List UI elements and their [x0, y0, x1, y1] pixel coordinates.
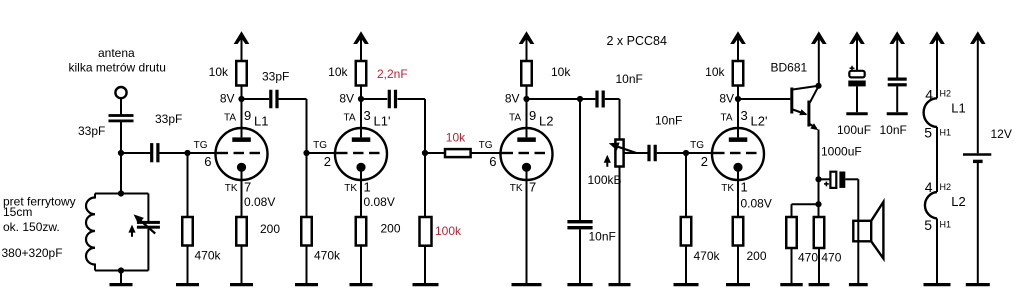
node 8V stage 3	[526, 86, 528, 100]
resistor R8 10k series to grid	[425, 152, 445, 154]
wire battery to ground	[977, 161, 979, 283]
svg-text:TG: TG	[479, 140, 493, 151]
triode L2' grid (dashed)	[711, 152, 725, 154]
wire R8 to grid of L2	[471, 152, 501, 154]
capacitor C9 100uF supply	[849, 31, 865, 44]
svg-text:2,2nF: 2,2nF	[377, 67, 408, 81]
resistor R5 200 cathode	[360, 167, 362, 217]
svg-text:H1: H1	[940, 220, 952, 230]
transistor Q1 base bar	[790, 88, 793, 114]
svg-text:6: 6	[489, 154, 496, 169]
svg-text:8V: 8V	[220, 92, 235, 106]
resistor R10 470k grid leak	[685, 153, 687, 217]
svg-text:TK: TK	[510, 183, 523, 194]
wire R7 to ground	[424, 246, 426, 284]
transistor Q2 emitter	[810, 124, 817, 129]
resistor R3 10k anode load	[236, 61, 247, 86]
svg-text:0.08V: 0.08V	[364, 195, 395, 209]
svg-text:1: 1	[364, 180, 371, 195]
triode L1' grid (dashed)	[334, 152, 348, 154]
ground pot	[609, 283, 631, 286]
capacitor C10 10nF supply	[889, 31, 905, 44]
svg-text:10k: 10k	[209, 65, 229, 79]
svg-text:100kB: 100kB	[588, 173, 622, 187]
svg-text:3: 3	[741, 108, 748, 123]
svg-text:L2: L2	[951, 194, 965, 209]
node E junction	[577, 96, 583, 102]
svg-text:2 x PCC84: 2 x PCC84	[607, 34, 667, 48]
wire antenna to C1	[120, 98, 122, 114]
wire C1 to node A	[120, 122, 122, 153]
potentiometer wiper arrow	[613, 145, 637, 153]
potentiometer adjust arrow	[606, 160, 608, 167]
svg-text:7: 7	[244, 180, 251, 195]
wire R1 to ground	[187, 246, 189, 284]
transistor Q2 collector	[810, 86, 819, 102]
svg-text:L1: L1	[951, 101, 965, 116]
resistor R9 10k anode load	[521, 61, 532, 86]
svg-text:BD681: BD681	[771, 61, 808, 75]
triode L2 anode plate	[517, 137, 536, 142]
wire C6 to ground	[579, 229, 581, 283]
svg-text:200: 200	[747, 249, 767, 263]
triode L1' anode plate	[352, 137, 371, 142]
svg-text:10k: 10k	[328, 65, 348, 79]
svg-text:0.08V: 0.08V	[244, 195, 275, 209]
node 8V stage 4	[737, 86, 739, 100]
wire R2 to ground	[241, 246, 243, 284]
resistor R13 470	[786, 217, 797, 248]
svg-text:TK: TK	[225, 183, 238, 194]
speaker LS1	[853, 221, 871, 242]
wire C7 to node F	[657, 152, 713, 154]
wire R11 to ground	[737, 246, 739, 284]
wire R10 to ground	[685, 246, 687, 284]
svg-text:TG: TG	[690, 140, 704, 151]
svg-text:470k: 470k	[195, 249, 222, 263]
svg-text:470k: 470k	[314, 249, 341, 263]
supply arrow heaters	[929, 31, 945, 44]
resistor R1 470k grid leak	[187, 153, 189, 217]
svg-text:8V: 8V	[505, 92, 520, 106]
svg-text:4: 4	[925, 87, 933, 103]
wire C2 to node B	[159, 152, 216, 154]
svg-text:200: 200	[381, 222, 401, 236]
svg-text:1000uF: 1000uF	[821, 145, 862, 159]
variable capacitor 380+320pF	[147, 194, 149, 222]
tank bottom rail	[95, 270, 148, 272]
wire anode to C3	[242, 98, 270, 100]
capacitor C3 33pF coupling	[269, 90, 272, 109]
svg-text:TA: TA	[509, 113, 521, 124]
supply arrow stage 3	[519, 31, 535, 44]
output node junction	[815, 176, 821, 182]
svg-text:TG: TG	[194, 140, 208, 151]
transistor Q1 collector	[793, 86, 819, 90]
ground R2	[230, 283, 253, 286]
transistor Q1 emitter	[793, 110, 806, 115]
resistor R2 200 cathode	[241, 167, 243, 217]
ground heaters	[924, 283, 951, 286]
svg-text:470k: 470k	[694, 249, 721, 263]
ground C10	[887, 112, 908, 115]
svg-text:10nF: 10nF	[616, 72, 643, 86]
svg-text:2: 2	[324, 154, 331, 169]
triode L2' anode lead pin 3	[737, 99, 739, 137]
triode L1' cathode	[356, 163, 365, 172]
svg-text:L1: L1	[254, 114, 268, 129]
resistor R4 470k grid leak stage 2	[306, 153, 308, 217]
svg-text:33pF: 33pF	[262, 70, 289, 84]
ground R13	[780, 283, 802, 286]
node G junction	[815, 201, 821, 207]
svg-text:10nF: 10nF	[589, 230, 616, 244]
capacitor 33pF series (C2)	[121, 152, 150, 154]
wire node G to R13	[792, 203, 819, 205]
wire wiper to C7	[624, 152, 648, 154]
svg-text:L2: L2	[539, 114, 553, 129]
triode L2' anode plate	[729, 137, 748, 142]
svg-text:8V: 8V	[719, 92, 734, 106]
svg-text:5: 5	[924, 125, 932, 141]
triode L2 grid (dashed)	[499, 152, 513, 154]
tuning arrow	[131, 229, 133, 237]
svg-text:0.08V: 0.08V	[741, 197, 772, 211]
wire heater L2 to ground	[936, 219, 938, 284]
svg-text:TA: TA	[343, 113, 355, 124]
triode L2' envelope	[712, 128, 764, 180]
svg-text:5: 5	[924, 217, 932, 233]
svg-text:10nF: 10nF	[880, 123, 907, 137]
wire to ground	[120, 271, 122, 284]
tank top rail	[95, 193, 148, 195]
svg-text:L2': L2'	[751, 114, 768, 129]
node A junction	[118, 150, 124, 156]
svg-text:100uF: 100uF	[837, 123, 871, 137]
svg-text:2: 2	[701, 154, 708, 169]
resistor R11 200 cathode	[737, 167, 739, 217]
collector node dot	[815, 83, 821, 89]
resistor R6 10k anode load	[356, 61, 367, 86]
triode L1 anode lead pin 9	[241, 99, 243, 137]
svg-text:H2: H2	[940, 89, 952, 99]
wire anode to node E	[527, 98, 596, 100]
wire anode L2' to base of Q1	[738, 98, 790, 100]
wire R5 to ground	[360, 246, 362, 284]
resistor R14 470	[814, 217, 825, 248]
svg-text:TA: TA	[720, 113, 732, 124]
ground R4	[295, 283, 318, 286]
potentiometer P1 100kB body	[615, 140, 623, 167]
wire C5 to potentiometer	[605, 98, 620, 100]
ground tank	[110, 283, 133, 286]
svg-text:antena: antena	[98, 46, 135, 60]
triode L2 cathode	[522, 163, 531, 172]
svg-text:33pF: 33pF	[155, 112, 182, 126]
triode L2 anode lead pin 9	[526, 99, 528, 137]
svg-text:100k: 100k	[435, 224, 462, 238]
triode L1' anode lead pin 3	[360, 99, 362, 137]
triode L1 cathode	[237, 163, 246, 172]
ground battery	[966, 283, 990, 286]
ground C6	[567, 283, 592, 286]
node F junction	[683, 150, 689, 156]
svg-text:TK: TK	[721, 183, 734, 194]
wire node A down to tank	[120, 153, 122, 194]
capacitor 33pF antenna series (C1)	[109, 114, 134, 117]
wire R4 to ground	[306, 246, 308, 284]
capacitor C7 10nF to grid of L2'	[647, 145, 650, 162]
svg-text:8V: 8V	[339, 92, 354, 106]
wire node C to grid of L1'	[307, 152, 336, 154]
wire emitter down	[818, 130, 820, 218]
transistor Q2 base bar	[807, 101, 810, 127]
svg-text:15cm: 15cm	[3, 205, 32, 219]
wire R14 to ground	[818, 248, 820, 283]
svg-text:TA: TA	[224, 113, 236, 124]
node B junction	[184, 150, 190, 156]
wire pot bottom to ground	[619, 167, 621, 284]
svg-text:TG: TG	[313, 140, 327, 151]
triode L2' cathode	[733, 163, 742, 172]
variable capacitor arrow	[138, 218, 156, 234]
svg-text:H2: H2	[940, 182, 952, 192]
triode L1 envelope	[216, 128, 268, 180]
node C junction	[303, 150, 309, 156]
node 8V stage 1	[241, 86, 243, 100]
triode L1 grid (dashed)	[214, 152, 228, 154]
antenna terminal	[115, 87, 126, 98]
heater L2 pins 4/5	[925, 192, 937, 219]
wire C3 to node C	[279, 98, 307, 100]
triode L2 envelope	[501, 128, 553, 180]
svg-text:33pF: 33pF	[78, 124, 105, 138]
wire anode to C4	[361, 98, 387, 100]
resistor R12 10k anode load	[733, 61, 744, 86]
battery 12V	[963, 153, 991, 156]
wire C4 to node D	[398, 98, 426, 100]
ground speaker	[849, 283, 868, 286]
svg-text:12V: 12V	[991, 127, 1012, 141]
ground R5	[350, 283, 373, 286]
ground R7	[413, 283, 439, 286]
svg-text:200: 200	[260, 222, 280, 236]
inductor L ferrite rod coil	[86, 198, 95, 265]
ground R11	[726, 283, 750, 286]
svg-text:9: 9	[529, 108, 536, 123]
triode L1 anode plate	[232, 137, 251, 142]
triode L1' envelope	[335, 128, 387, 180]
supply arrow stage 1	[234, 31, 250, 44]
ground R1	[176, 283, 199, 286]
node 8V stage 2	[360, 86, 362, 100]
wire L2 cathode to ground	[526, 167, 528, 283]
wire heater L1 to heater L2	[936, 127, 938, 192]
svg-text:TK: TK	[344, 183, 357, 194]
supply arrow collector	[811, 31, 827, 44]
svg-text:9: 9	[244, 108, 251, 123]
wire R13 to ground	[791, 248, 793, 283]
heater L1 pins 4/5	[924, 98, 937, 127]
supply arrow stage 4	[730, 31, 746, 44]
svg-text:1: 1	[741, 180, 748, 195]
supply arrow stage 2	[353, 31, 369, 44]
resistor R7 100k grid leak	[424, 153, 426, 217]
supply arrow battery	[970, 31, 986, 44]
capacitor C8 1000uF output	[819, 178, 831, 180]
svg-text:6: 6	[204, 154, 211, 169]
capacitor C6 10nF to ground	[579, 99, 581, 220]
svg-text:L1': L1'	[374, 114, 391, 129]
svg-text:H1: H1	[940, 128, 952, 138]
svg-text:ok. 150zw.: ok. 150zw.	[3, 220, 60, 234]
svg-text:380+320pF: 380+320pF	[2, 246, 63, 260]
svg-text:10k: 10k	[551, 65, 571, 79]
capacitor C4 2,2nF coupling	[388, 90, 391, 109]
ground C9	[846, 112, 867, 115]
svg-text:3: 3	[364, 108, 371, 123]
wire C8 to speaker	[845, 178, 858, 180]
svg-text:10k: 10k	[446, 131, 466, 145]
svg-text:10k: 10k	[705, 65, 725, 79]
capacitor C5 10nF coupling	[595, 91, 598, 108]
svg-text:4: 4	[925, 179, 933, 195]
node D junction	[422, 150, 428, 156]
svg-text:10nF: 10nF	[655, 114, 682, 128]
ground R14	[809, 283, 830, 286]
ground L2 cathode	[512, 283, 542, 286]
ground R10	[674, 283, 699, 286]
svg-text:7: 7	[529, 180, 536, 195]
svg-text:kilka metrów drutu: kilka metrów drutu	[69, 61, 166, 75]
